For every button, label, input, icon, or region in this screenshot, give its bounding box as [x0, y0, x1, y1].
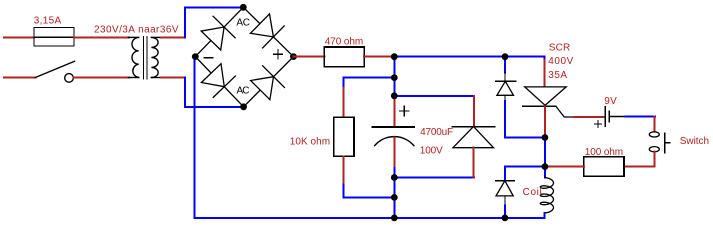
node: bottom rail junction at main column — [391, 215, 398, 222]
node: bridge AC top junction — [240, 4, 247, 11]
wire: branch to freewheel diode top (blue) — [394, 95, 474, 97]
push switch SW2 plunger — [665, 133, 670, 153]
wire: diode D6 anode lead (black then blue) — [504, 95, 506, 101]
wire: main column junction down chain (blue segments) — [393, 57, 395, 96]
svg-text:400V: 400V — [548, 56, 573, 67]
wire: coil top lead (blue) — [544, 167, 546, 178]
diode D7 cathode bar — [496, 180, 515, 182]
wire: battery stub (black) — [610, 116, 626, 118]
diode D4 (bridge bottom to right) — [251, 66, 285, 100]
node: bridge plus junction — [290, 53, 297, 60]
diode D5 (freewheel, cathode bar) — [452, 126, 495, 128]
node: bottom rail junction at diode D7 — [502, 215, 509, 222]
node: capacitor top junction — [391, 92, 398, 99]
wire: diode D6 cathode lead (black) — [504, 73, 506, 82]
resistor R2 10K ohm — [334, 117, 354, 156]
svg-text:10K ohm: 10K ohm — [290, 136, 330, 147]
wire: resistor 470 ohm to main junction — [364, 56, 394, 58]
svg-text:SCR: SCR — [549, 43, 570, 54]
wire: mains live lead into fuse — [4, 36, 34, 38]
node: 10K bottom junction — [391, 194, 398, 201]
wire: push switch bottom to 100 ohm (red) — [624, 152, 655, 167]
diode D6 triangle — [497, 81, 514, 95]
wire: secondary top lead (red) — [161, 36, 185, 38]
fuse F1 3,15A — [34, 28, 74, 47]
wire: capacitor negative lead (red) — [393, 138, 395, 169]
label plus (battery polarity) — [595, 121, 602, 128]
wire: diode D7 to bottom rail (blue) — [504, 206, 506, 218]
capacitor C1 top plate — [372, 126, 414, 128]
node: 10K branch junction — [391, 74, 398, 81]
push switch SW2 top contact — [649, 132, 659, 137]
switch S1 (mains switch) — [35, 61, 74, 82]
svg-text:100 ohm: 100 ohm — [585, 147, 623, 158]
wire: bridge plus to resistor 470 ohm — [294, 56, 325, 58]
wire: SCR cathode junction down to coil junction (blue) — [544, 138, 546, 167]
wire: capacitor positive lead (red) — [393, 96, 395, 127]
wire: top rail branch down to snubber diode D6 (blue) — [504, 57, 506, 73]
label plus (bridge positive node) — [274, 50, 283, 59]
wire: bottom rail — [195, 217, 545, 219]
diode D6 cathode bar — [496, 80, 516, 82]
wire: fuse to transformer primary top — [74, 36, 129, 38]
diode D3 (bridge left to bottom) — [201, 64, 235, 98]
wire: SCR cathode lead down (red) — [544, 106, 546, 137]
bridge rectifier frame (diamond) — [195, 7, 293, 107]
wire: branch to 10K ohm top — [344, 78, 395, 88]
svg-text:230V/3A naar36V: 230V/3A naar36V — [94, 25, 179, 36]
wire: secondary bottom lead (red) — [161, 77, 185, 79]
wire: freewheel diode D5 top lead (red) — [473, 96, 475, 127]
SCR U1 gate lead — [556, 106, 574, 117]
wire: down to push switch top contact (red) — [654, 117, 656, 132]
wire: cap lead to lower junction (blue) — [393, 168, 395, 218]
diode D5 triangle — [453, 127, 494, 148]
wire: lower junction to freewheel diode bottom (blue) — [394, 177, 474, 179]
svg-text:AC: AC — [236, 17, 250, 28]
label minus (bridge negative node) — [204, 57, 213, 59]
wire: main positive rail to SCR anode corner — [394, 57, 544, 60]
svg-text:Switch: Switch — [680, 136, 709, 147]
transformer T1 primary winding — [129, 37, 139, 77]
wire: bridge minus node down to bottom rail — [194, 57, 196, 218]
transformer T1 core — [144, 37, 147, 80]
svg-text:4700uF: 4700uF — [420, 127, 453, 138]
svg-text:Coil: Coil — [523, 187, 542, 198]
capacitor C1 bottom plate (curved) — [375, 137, 414, 146]
battery B1 negative plate (short) — [608, 111, 610, 121]
node: main junction at 470 ohm output — [391, 53, 398, 60]
node: bridge AC bottom junction — [240, 103, 247, 110]
SCR U1 triangle (anode) — [525, 87, 567, 105]
label plus (capacitor polarity) — [400, 106, 409, 115]
wire: 10K ohm bottom lead (red) — [343, 156, 345, 184]
diode D1 (bridge left to top) — [201, 16, 235, 50]
wire: switch to transformer primary bottom — [73, 77, 129, 79]
wire: SCR gate to battery (red) — [574, 116, 604, 118]
node: top rail junction at diode D6 — [502, 53, 509, 60]
resistor R1 470 ohm — [324, 47, 364, 67]
wire: diode D7 anode lead (black then blue) — [504, 196, 506, 206]
svg-text:100V: 100V — [420, 146, 443, 157]
wire: coil bottom to rail (blue) — [544, 213, 546, 218]
diode D2 (bridge top to right) — [250, 14, 284, 48]
svg-text:470 ohm: 470 ohm — [325, 36, 363, 47]
wire: SCR anode lead (red) — [544, 60, 546, 87]
wire: 10K ohm top lead (red) — [343, 88, 345, 117]
inductor L1 (Coil) — [540, 178, 553, 213]
push switch SW2 bottom contact — [649, 147, 659, 152]
resistor R3 100 ohm — [584, 157, 624, 176]
wire: mains neutral lead to switch — [4, 77, 35, 79]
wire: freewheel diode D5 bottom lead (red) — [473, 148, 475, 178]
node: capacitor bottom junction — [391, 174, 398, 181]
wire: coil junction to lower diode D7 (blue) — [505, 167, 545, 179]
wire: 100 ohm to cathode junction (red) — [545, 166, 584, 168]
svg-text:3,15A: 3,15A — [34, 16, 62, 27]
wire: 10K ohm bottom to main column — [344, 184, 395, 197]
svg-text:AC: AC — [237, 86, 250, 97]
SCR U1 cathode bar — [523, 105, 556, 107]
wire: battery to push switch (blue) — [626, 116, 655, 118]
node: coil / 100 ohm junction — [542, 163, 549, 170]
battery B1 positive plate (long) — [604, 107, 606, 126]
svg-text:9V: 9V — [604, 96, 617, 107]
transformer T1 secondary winding — [151, 37, 161, 77]
diode D7 triangle — [496, 181, 513, 196]
wire: secondary top to bridge AC top (blue, up and over) — [185, 7, 244, 37]
node: SCR cathode junction — [542, 134, 549, 141]
wire: secondary bottom to bridge AC bottom (blue, down and over) — [185, 78, 244, 107]
wire: diode D6 to SCR cathode junction (blue) — [505, 101, 545, 138]
svg-text:35A: 35A — [548, 70, 567, 81]
node: bridge minus junction — [192, 53, 199, 60]
